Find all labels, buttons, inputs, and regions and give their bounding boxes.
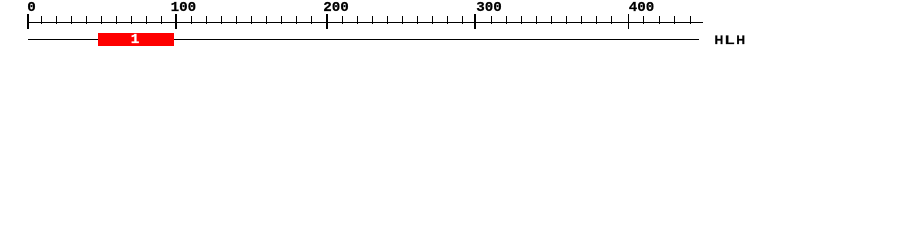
minor tick 110 [191,16,192,24]
minor tick 380 [596,16,597,24]
minor tick 340 [536,16,537,24]
minor tick 70 [131,16,132,24]
minor tick 230 [372,16,373,24]
minor tick 310 [491,16,492,24]
minor tick 290 [462,16,463,24]
minor tick 250 [402,16,403,24]
minor tick 180 [296,16,297,24]
major tick 0 [27,14,29,29]
major tick 400 [628,14,630,29]
minor tick 130 [221,16,222,24]
minor tick 270 [432,16,433,24]
minor tick 240 [387,16,388,24]
ruler label 100 [171,1,197,15]
minor tick 40 [86,16,87,24]
major tick 300 [474,14,476,29]
domain box 1 (red, residues ~47-98) [98,33,174,46]
minor tick 280 [447,16,448,24]
minor tick 20 [56,16,57,24]
ruler label 300 [476,1,502,15]
minor tick 30 [71,16,72,24]
minor tick 440 [690,16,691,24]
minor tick 160 [266,16,267,24]
minor tick 360 [566,16,567,24]
minor tick 330 [521,16,522,24]
domain box label 1 [97,33,173,47]
minor tick 150 [251,16,252,24]
minor tick 370 [581,16,582,24]
minor tick 140 [236,16,237,24]
minor tick 120 [206,16,207,24]
minor tick 190 [311,16,312,24]
minor tick 320 [506,16,507,24]
minor tick 90 [161,16,162,24]
ruler label 0 [27,1,36,15]
minor tick 80 [146,16,147,24]
domain name text HLH [715,35,724,47]
ruler label 200 [323,1,349,15]
minor tick 350 [551,16,552,24]
minor tick 50 [101,16,102,24]
major tick 100 [175,14,177,29]
minor tick 410 [643,16,644,24]
minor tick 210 [342,16,343,24]
minor tick 60 [116,16,117,24]
minor tick 220 [357,16,358,24]
ruler scale line [28,22,703,23]
minor tick 390 [611,16,612,24]
ruler label 400 [629,1,655,15]
minor tick 260 [417,16,418,24]
minor tick 170 [281,16,282,24]
protein sequence line [28,39,700,40]
minor tick 10 [41,16,42,24]
major tick 200 [326,14,328,29]
minor tick 420 [659,16,660,24]
minor tick 430 [674,16,675,24]
